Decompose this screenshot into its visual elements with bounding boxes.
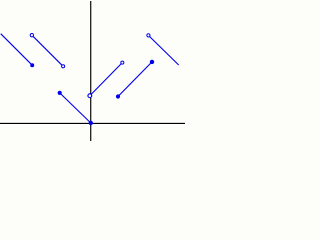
wire segment D — [90, 63, 123, 96]
node open circle 3 — [61, 64, 65, 68]
y-axis — [90, 1, 91, 141]
node open circle 2 — [30, 33, 34, 37]
wire segment E — [118, 62, 152, 97]
node open circle 7 — [120, 61, 124, 65]
wire segment F — [148, 35, 178, 65]
node open circle 10 — [146, 33, 150, 37]
wire segment A — [1, 34, 33, 65]
node closed dot 8 — [116, 94, 120, 98]
x-axis — [0, 123, 185, 124]
node closed dot 1 — [30, 63, 34, 67]
wire segment C — [60, 93, 91, 123]
node open circle 6 — [87, 93, 92, 98]
node closed dot 5 (origin) — [89, 121, 93, 125]
node closed dot 9 — [150, 60, 154, 64]
node closed dot 4 — [58, 91, 62, 95]
wire segment B — [32, 35, 63, 66]
